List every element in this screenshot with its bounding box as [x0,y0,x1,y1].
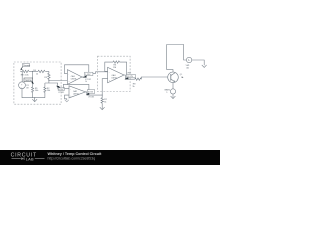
svg-text:VCVS3: VCVS3 [88,97,94,99]
svg-text:TMP36: TMP36 [25,80,33,82]
svg-text:1k: 1k [85,81,87,83]
svg-text:LM741: LM741 [112,77,118,79]
svg-text:1k: 1k [36,74,38,76]
svg-text:http://circuitlab.com/c2se8fz3: http://circuitlab.com/c2se8fz3q [48,157,96,161]
svg-text:0.73V: 0.73V [59,89,65,91]
svg-text:Whitney / Temp Control Circuit: Whitney / Temp Control Circuit [48,152,103,156]
svg-text:LM741: LM741 [73,94,79,96]
svg-text:1.19V: 1.19V [85,74,91,76]
svg-text:RT1 10k: RT1 10k [21,74,30,76]
svg-text:VCVS1: VCVS1 [58,92,64,94]
svg-text:1M: 1M [113,67,116,69]
svg-text:Q1: Q1 [180,74,182,76]
svg-text:Thermis: Thermis [23,65,30,67]
svg-text:LAB: LAB [26,156,34,161]
svg-text:LM741: LM741 [71,78,77,80]
